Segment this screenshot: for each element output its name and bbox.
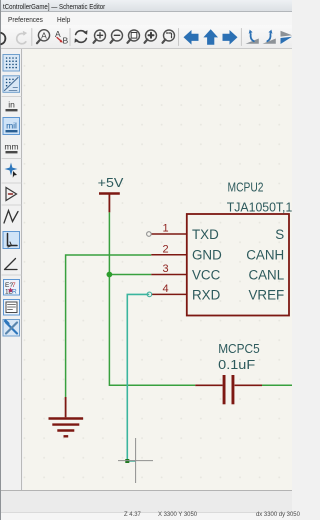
svg-text:S: S	[275, 227, 284, 242]
svg-text:B: B	[63, 36, 69, 46]
svg-text:TJA1050T,1: TJA1050T,1	[227, 200, 292, 215]
svg-text:+5V: +5V	[98, 175, 124, 190]
svg-text:4: 4	[162, 283, 168, 295]
svg-text:A: A	[41, 31, 47, 41]
svg-text:in: in	[8, 100, 15, 110]
svg-text:1: 1	[162, 223, 168, 235]
svg-text:CANL: CANL	[248, 267, 284, 282]
svg-text:TXD: TXD	[192, 227, 219, 242]
svg-text:GND: GND	[192, 248, 222, 263]
svg-text:MCPU2: MCPU2	[228, 179, 264, 194]
svg-text:mil: mil	[6, 121, 17, 131]
svg-text:CANH: CANH	[246, 248, 284, 263]
svg-text:mm: mm	[4, 142, 18, 152]
svg-text:VCC: VCC	[192, 267, 221, 282]
svg-text:MCPC5: MCPC5	[218, 341, 260, 356]
svg-text:2: 2	[162, 243, 168, 255]
svg-text:0.1uF: 0.1uF	[218, 357, 255, 372]
svg-text:RXD: RXD	[192, 287, 221, 302]
svg-text:VREF: VREF	[248, 287, 284, 302]
svg-text:3: 3	[162, 263, 168, 275]
